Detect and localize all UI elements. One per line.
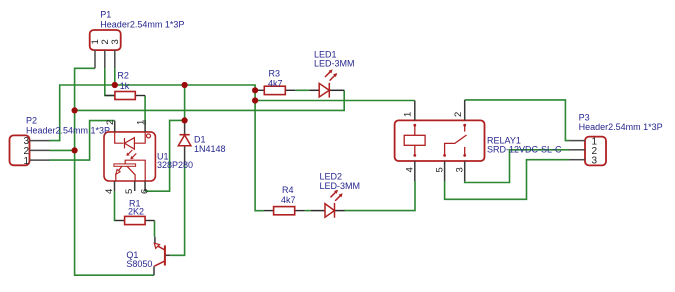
resistor R3: [255, 86, 295, 94]
svg-text:4: 4: [405, 167, 416, 172]
relay pin dots: [413, 124, 466, 157]
svg-text:R3: R3: [269, 69, 281, 79]
svg-text:P2: P2: [26, 116, 37, 126]
svg-text:3: 3: [592, 156, 598, 167]
wire rail y=110.4 from P1.1 column to LED1 cathode: [75, 90, 345, 110]
wire P1 pin3 down to top rail: [114, 68, 116, 85]
junction node: P2 pin2 on P1 pin1 column: [72, 147, 78, 153]
wire relay pin5 to P3 pin3: [445, 160, 569, 200]
junction node: D1 column on top rail: [182, 82, 188, 88]
svg-text:4: 4: [104, 189, 115, 194]
svg-text:1N4148: 1N4148: [194, 144, 226, 154]
wire U1 pin4 down to R1 left: [114, 191, 116, 221]
wire relay pin2 to P3 pin1: [465, 100, 569, 141]
wire P1 pin2 down to R2 left: [105, 68, 115, 95]
diode D1: [178, 120, 191, 165]
wire relay pin3 to P3 pin2: [465, 150, 569, 183]
resistor R4: [264, 207, 305, 215]
svg-text:2: 2: [453, 112, 464, 117]
wire mid rail y=100.5 to relay pin1: [255, 100, 415, 102]
transistor Q1: [154, 237, 170, 276]
svg-text:5: 5: [124, 189, 135, 194]
svg-text:P3: P3: [579, 113, 590, 123]
relay RELAY1: [395, 100, 485, 181]
connector P1: [90, 30, 121, 68]
svg-text:2: 2: [105, 120, 116, 125]
svg-text:4k7: 4k7: [268, 78, 283, 88]
wire D1 cathode column from top rail: [184, 85, 186, 120]
wire R4 to LED2: [305, 210, 311, 212]
svg-text:R2: R2: [117, 71, 129, 81]
junction node: relay pin1 rail tap: [252, 97, 258, 103]
svg-text:LED-3MM: LED-3MM: [314, 59, 355, 69]
U1 light arrows: [127, 150, 132, 155]
svg-text:5: 5: [434, 167, 445, 172]
svg-text:4k7: 4k7: [281, 195, 296, 205]
svg-text:Header2.54mm 1*3P: Header2.54mm 1*3P: [579, 122, 663, 132]
LED LED2: [311, 190, 345, 218]
relay pin stubs: [414, 101, 416, 121]
svg-text:P1: P1: [100, 10, 111, 20]
svg-text:2K2: 2K2: [128, 207, 144, 217]
svg-text:1: 1: [135, 120, 146, 125]
wire U1 pin6 up to D1 junction: [145, 120, 185, 191]
svg-text:S8050: S8050: [126, 259, 152, 269]
svg-text:3: 3: [110, 39, 121, 44]
resistor R2: [105, 92, 145, 100]
wire D1 anode down to Q1 base: [170, 165, 184, 255]
connector P2: [10, 135, 50, 166]
svg-text:3: 3: [454, 167, 465, 172]
relay coil: [404, 125, 425, 155]
connector P3: [569, 136, 606, 166]
svg-text:LED2: LED2: [320, 172, 343, 182]
svg-text:SRD-12VDC-SL-C: SRD-12VDC-SL-C: [487, 145, 562, 155]
wire net A top rail: P2.3 up and across to R3/R4 column: [50, 85, 264, 211]
wire R2 right down to U1 pin1: [144, 96, 146, 126]
resistor R1: [115, 216, 155, 224]
LED LED1: [309, 69, 344, 97]
svg-text:D1: D1: [194, 134, 206, 144]
svg-text:LED-3MM: LED-3MM: [320, 181, 361, 191]
svg-text:1: 1: [24, 156, 30, 167]
svg-text:Header2.54mm 1*3P: Header2.54mm 1*3P: [100, 20, 184, 30]
junction node: R3 left pin: [252, 87, 258, 93]
svg-text:1k: 1k: [120, 81, 130, 91]
junction node: LED1 rail on P1 pin1 column: [72, 107, 78, 113]
junction node: D1 cathode / U1 pin6: [182, 117, 188, 123]
wire LED2 right to relay pin4: [345, 181, 416, 211]
wire P2 pin1 up to U1 pin2: [50, 121, 115, 161]
relay switch: [445, 125, 467, 155]
svg-text:R4: R4: [282, 185, 294, 195]
optocoupler U1: [104, 120, 155, 194]
junction node: P1 pin3 on top rail: [112, 82, 118, 88]
wire P1 pin1 long left column down to bottom rail to Q1 collector: [75, 68, 154, 275]
wire R1 right down to Q1 emitter: [154, 221, 156, 237]
svg-text:328P280: 328P280: [157, 160, 193, 170]
svg-text:Header2.54mm 1*3P: Header2.54mm 1*3P: [26, 126, 110, 136]
U1 pin stubs: [114, 121, 116, 132]
svg-text:1: 1: [403, 112, 414, 117]
U1 internal LED: [114, 132, 145, 181]
svg-text:6: 6: [140, 189, 151, 194]
wire P2 pin2 to P1.1 column: [50, 149, 75, 151]
wire R3 to LED1: [295, 89, 309, 91]
U1 phototransistor: [114, 164, 136, 166]
